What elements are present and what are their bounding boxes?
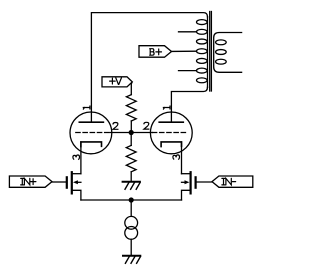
triode U2 grid pin wire to node (131, 132, 152, 134)
transformer T1 primary winding line (207, 17, 209, 88)
power flag B+ (139, 46, 172, 58)
triode U1 plate bar (79, 121, 103, 123)
mosfet Q1 gate bar (66, 177, 68, 187)
resistor R1 (126, 95, 136, 121)
mosfet Q1 drain lead (73, 173, 81, 175)
transformer T1 primary loop 1 (197, 20, 208, 25)
mosfet Q2 channel bar (190, 172, 192, 193)
transformer T1 primary tap stub upper (179, 31, 197, 33)
node tail junction dot (129, 197, 134, 202)
triode U1 envelope (70, 112, 112, 154)
transformer T1 primary loop 6 (197, 68, 208, 73)
triode U1 grid pin wire to node (110, 132, 131, 134)
triode U1 grid dashed line (76, 132, 110, 134)
triode U1 cathode (81, 142, 102, 147)
triode U1 pin 2 label (113, 123, 118, 130)
transformer T1 primary loop 5 (197, 58, 208, 63)
mosfet Q1 body lead with arrow (77, 181, 81, 183)
triode U2 grid dashed line (152, 132, 186, 134)
mosfet Q2 body lead with arrow (182, 181, 186, 183)
mosfet Q2 source lead (182, 190, 190, 200)
wire rail to current source I1 (130, 200, 132, 216)
label IN+ (21, 178, 36, 185)
mosfet Q2 gate bar (195, 177, 197, 187)
triode U2 pin 2 label (144, 122, 149, 129)
transformer T1 secondary loop 1 (216, 40, 227, 45)
wire I1 to ground (130, 239, 132, 255)
resistor R2 (126, 145, 136, 171)
label IN- (222, 178, 236, 185)
mosfet Q1 source lead (73, 190, 81, 200)
mosfet Q1 channel bar (71, 172, 73, 193)
ground (tail current source) (123, 256, 140, 264)
input flag IN+ (9, 176, 52, 187)
wire IN- to Q2 gate (197, 181, 212, 183)
mosfet Q2 drain lead (182, 173, 190, 175)
wire B+ to primary center tap (172, 50, 197, 52)
triode U2 pin 1 label (163, 106, 170, 109)
wire top rail from U1 plate to transformer primary top (91, 13, 207, 123)
wire R2 to ground (130, 172, 132, 181)
triode U2 pin 3 label (173, 155, 180, 159)
label +V (110, 78, 122, 85)
wire node to R2 (130, 133, 132, 146)
power flag +V (102, 77, 132, 87)
wire U2 cathode to Q2 drain (181, 142, 183, 174)
transformer T1 secondary loop 3 (216, 59, 227, 64)
input flag IN- (212, 176, 253, 187)
transformer T1 primary loop 4 (197, 49, 208, 54)
wire R1 to grid node (130, 121, 132, 133)
transformer T1 primary loop 2 (197, 29, 208, 34)
transformer T1 core line 1 (209, 12, 211, 92)
node grid bias junction dot (129, 130, 134, 135)
wire +V to R1 (130, 82, 133, 94)
wire tail rail (81, 199, 182, 201)
wire U1 cathode to Q1 drain (80, 142, 82, 174)
triode U2 plate bar (159, 121, 183, 123)
label B+ (150, 49, 162, 56)
transformer T1 secondary winding line with taps (214, 33, 242, 73)
transformer T1 primary loop 3 (197, 39, 208, 44)
transformer T1 core line 2 (210, 12, 212, 92)
wire IN+ to Q1 gate (52, 181, 66, 183)
transformer T1 secondary loop 2 (216, 50, 227, 55)
transformer T1 primary bottom arc wire to U2 plate riser (171, 87, 207, 122)
triode U2 cathode (161, 142, 181, 147)
ground (bias divider) (123, 182, 140, 190)
triode U2 envelope (150, 112, 192, 154)
triode U1 pin 3 label (73, 155, 80, 159)
transformer T1 primary tap stub lower (179, 70, 197, 72)
triode U1 pin 1 label (83, 106, 90, 109)
current source I1 (125, 216, 138, 229)
transformer T1 primary loop 7 (197, 78, 208, 83)
